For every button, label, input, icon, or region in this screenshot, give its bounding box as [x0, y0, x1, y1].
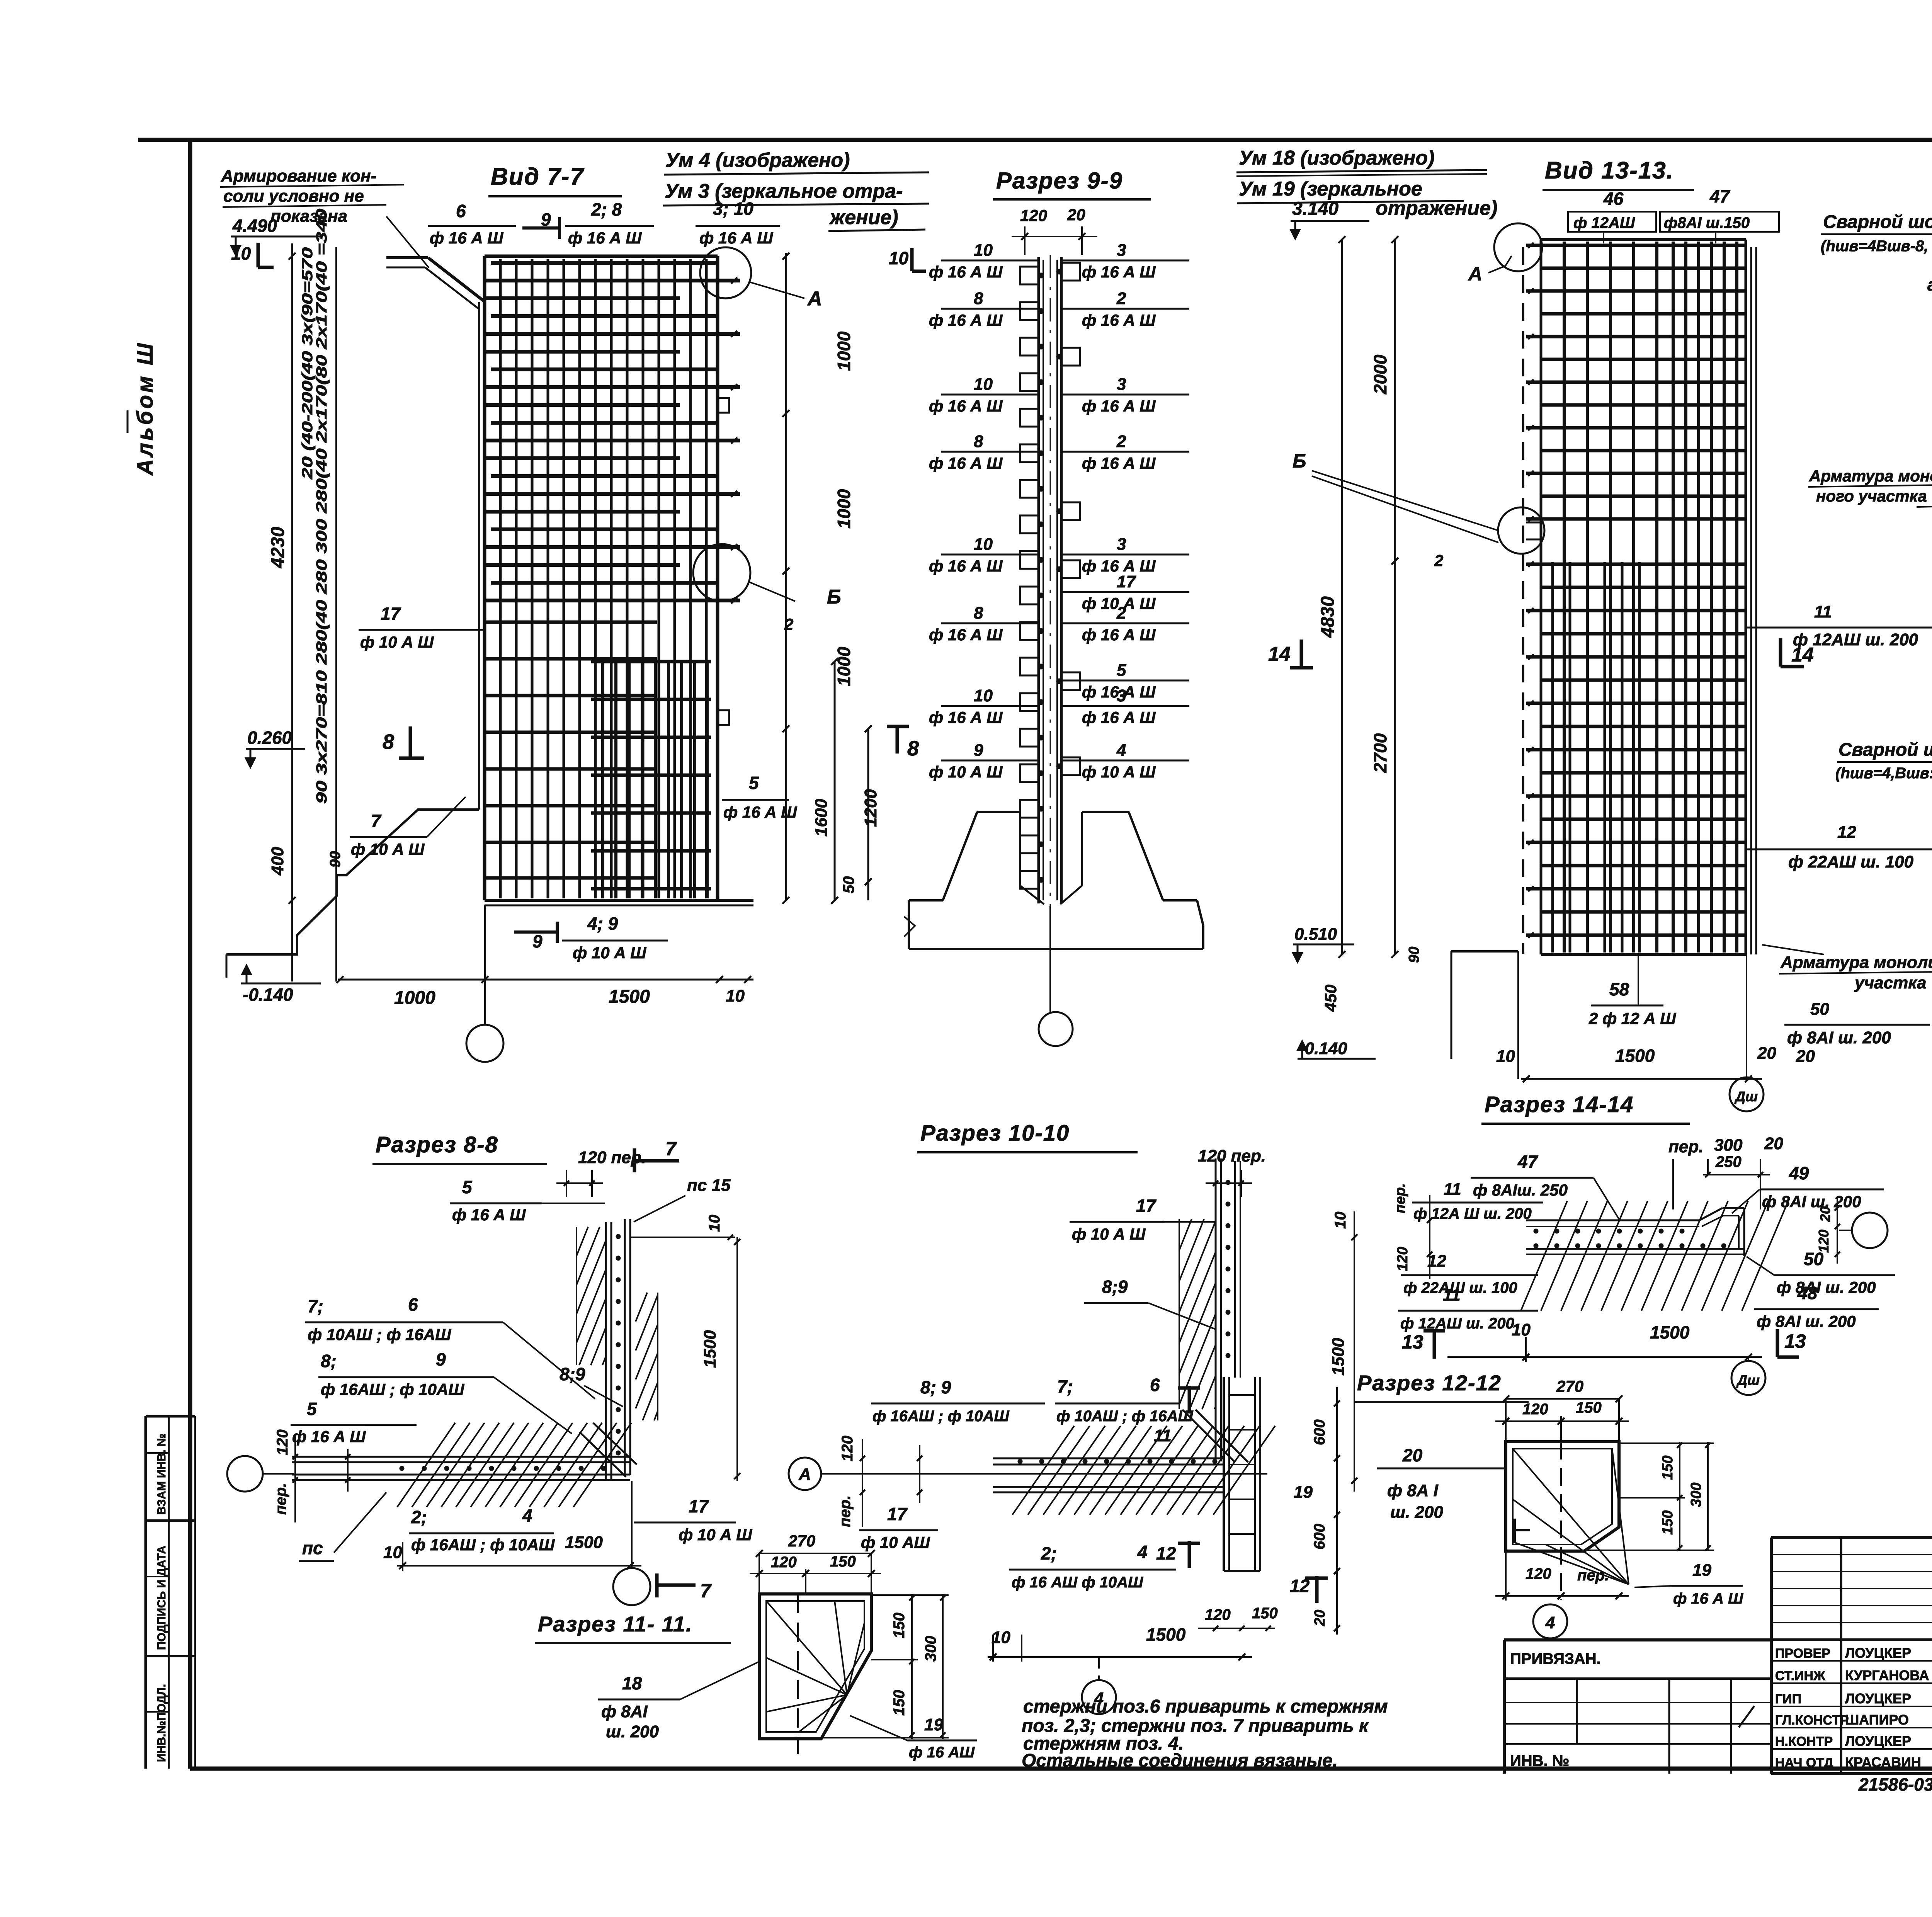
- svg-text:пс 15: пс 15: [687, 1176, 731, 1195]
- svg-text:ф 16 А Ш: ф 16 А Ш: [929, 311, 1003, 329]
- svg-text:2: 2: [1116, 604, 1126, 623]
- sheet frame bottom edge: [190, 1767, 1932, 1771]
- svg-text:19: 19: [1692, 1561, 1711, 1580]
- view 7-7 right edge notch A: [718, 398, 729, 413]
- svg-text:10: 10: [383, 1543, 402, 1562]
- svg-text:(hшв=4Вшв-8, сшв=90): (hшв=4Вшв-8, сшв=90): [1821, 238, 1932, 255]
- axis bubble A 10-10: [789, 1458, 821, 1490]
- svg-text:А: А: [798, 1465, 811, 1484]
- svg-text:1500: 1500: [701, 1330, 719, 1368]
- svg-text:48: 48: [1797, 1283, 1818, 1303]
- svg-text:600: 600: [1311, 1524, 1328, 1550]
- view 7-7 grid horizontals upper: [491, 261, 718, 265]
- svg-text:8: 8: [974, 289, 983, 308]
- svg-text:Ум 3 (зеркальное отра-: Ум 3 (зеркальное отра-: [665, 180, 903, 202]
- svg-text:19: 19: [924, 1715, 943, 1734]
- svg-text:ф 16 А Ш: ф 16 А Ш: [929, 454, 1003, 472]
- view 7-7 bottom mesh verticals: [601, 662, 604, 898]
- svg-text:ф 8АI ш. 200: ф 8АI ш. 200: [1762, 1192, 1861, 1211]
- section 9-9 footing pocket: [1019, 812, 1021, 886]
- svg-text:9: 9: [436, 1349, 446, 1369]
- svg-text:ф 16 А Ш: ф 16 А Ш: [430, 229, 503, 247]
- svg-text:ф 10 А Ш: ф 10 А Ш: [1072, 1225, 1146, 1243]
- svg-text:150: 150: [891, 1690, 908, 1716]
- svg-text:90: 90: [327, 851, 344, 867]
- section 12-12 dashed axis: [1560, 1442, 1562, 1600]
- svg-text:1500: 1500: [609, 987, 650, 1007]
- svg-text:2: 2: [1116, 289, 1126, 308]
- svg-text:Н.КОНТР: Н.КОНТР: [1775, 1734, 1833, 1749]
- section 10-10 wall hatch: [1179, 1218, 1180, 1220]
- section 10-10 wall: [1215, 1158, 1217, 1461]
- svg-text:10: 10: [889, 248, 909, 268]
- svg-text:20: 20: [1764, 1134, 1783, 1153]
- svg-text:ф 10 А Ш: ф 10 А Ш: [573, 944, 646, 962]
- svg-text:ф 10 А Ш: ф 10 А Ш: [1082, 763, 1156, 781]
- right rotated dims 20 120 14-14: [1837, 1198, 1838, 1264]
- svg-text:120: 120: [771, 1554, 797, 1571]
- view 7-7 grid horizontals lower: [485, 621, 657, 624]
- svg-text:стержни поз.6 приварить к стер: стержни поз.6 приварить к стержням: [1023, 1696, 1388, 1717]
- svg-text:8: 8: [974, 432, 983, 451]
- svg-text:ф 16АШ ; ф 10АШ: ф 16АШ ; ф 10АШ: [411, 1536, 555, 1554]
- svg-text:250: 250: [1715, 1153, 1742, 1170]
- svg-text:7: 7: [665, 1138, 677, 1160]
- view 7-7 right dim 1600 1200: [834, 662, 836, 900]
- svg-text:Вид 7-7: Вид 7-7: [491, 163, 584, 190]
- section 10-10 slab hatch: [1012, 1426, 1074, 1515]
- svg-text:120: 120: [1526, 1565, 1551, 1582]
- view 7-7 bottom mesh horizontals: [591, 660, 711, 663]
- view 13-13 grid verticals: [1563, 242, 1566, 953]
- svg-text:1000: 1000: [834, 646, 854, 686]
- view 7-7 footing outline: [226, 810, 479, 954]
- section 9-9 right callouts: [1061, 260, 1189, 262]
- svg-text:пс: пс: [302, 1538, 323, 1558]
- svg-text:ф 16 А Ш: ф 16 А Ш: [1082, 397, 1156, 415]
- svg-text:ф 16 А Ш: ф 16 А Ш: [1082, 454, 1156, 472]
- section 12-12 square outer: [1506, 1442, 1619, 1551]
- svg-text:12: 12: [1156, 1543, 1176, 1563]
- svg-text:ф 10 АШ: ф 10 АШ: [861, 1533, 930, 1551]
- section 8-8 slab hatch: [397, 1423, 455, 1507]
- view 7-7 console outline: [386, 256, 428, 259]
- svg-text:90: 90: [1406, 947, 1422, 963]
- svg-text:8;9: 8;9: [1102, 1277, 1128, 1297]
- svg-text:ф 16 А Ш: ф 16 А Ш: [452, 1206, 526, 1224]
- svg-text:7;: 7;: [308, 1296, 323, 1316]
- svg-text:ф 16 А Ш: ф 16 А Ш: [1673, 1590, 1743, 1607]
- svg-text:17: 17: [887, 1504, 908, 1524]
- view 7-7 grid frame: [483, 256, 486, 900]
- svg-text:-0.140: -0.140: [243, 985, 293, 1005]
- left tick lines 14-14: [1429, 1195, 1430, 1279]
- svg-text:а: а: [1927, 274, 1932, 294]
- Dsh bubble 14-14: [1748, 1357, 1749, 1361]
- section 9-9 axis bubble: [1049, 906, 1051, 1012]
- section mark 7 bottom: [655, 1573, 659, 1597]
- svg-text:ф 8АI ш. 200: ф 8АI ш. 200: [1777, 1278, 1876, 1296]
- svg-text:300: 300: [1714, 1136, 1743, 1155]
- svg-text:Разрез 14-14: Разрез 14-14: [1485, 1092, 1634, 1117]
- svg-text:ЛОУЦКЕР: ЛОУЦКЕР: [1845, 1733, 1911, 1749]
- svg-text:пер.: пер.: [1392, 1183, 1408, 1213]
- svg-text:ф8АI ш.150: ф8АI ш.150: [1664, 214, 1750, 231]
- view 13-13 detail circle top: [1494, 223, 1542, 271]
- svg-text:1500: 1500: [1329, 1338, 1348, 1376]
- svg-text:20: 20: [1312, 1610, 1328, 1626]
- svg-text:270: 270: [788, 1532, 815, 1550]
- privyazan table: [1503, 1640, 1506, 1774]
- svg-text:КУРГАНОВА: КУРГАНОВА: [1845, 1667, 1929, 1683]
- svg-text:46: 46: [1603, 189, 1624, 209]
- view 13-13 grid frame: [1540, 240, 1543, 954]
- section 8-8 wall hatch left band: [576, 1226, 577, 1228]
- svg-text:120: 120: [1395, 1247, 1411, 1271]
- svg-text:2700: 2700: [1370, 733, 1390, 773]
- svg-text:ф 16 А Ш: ф 16 А Ш: [929, 263, 1003, 281]
- section flag T1 10-10: [1188, 1386, 1191, 1414]
- section 10-10 corner diagonal: [1196, 1410, 1248, 1462]
- section 9-9 left hook squares: [1020, 267, 1039, 284]
- svg-text:ф 12АШ: ф 12АШ: [1573, 214, 1635, 231]
- section 14-14 diagonal hatch: [1521, 1201, 1567, 1311]
- svg-text:10: 10: [1332, 1212, 1349, 1229]
- svg-text:10: 10: [1496, 1047, 1515, 1066]
- svg-text:показана: показана: [270, 207, 347, 226]
- svg-text:10: 10: [706, 1215, 723, 1232]
- svg-text:17: 17: [689, 1496, 709, 1516]
- svg-text:ш. 200: ш. 200: [606, 1722, 659, 1741]
- svg-text:7: 7: [700, 1580, 712, 1602]
- svg-text:20 (40-200(40 3х(90=570: 20 (40-200(40 3х(90=570: [299, 247, 316, 480]
- svg-text:5: 5: [462, 1177, 473, 1197]
- section 11-11 dashed axis: [797, 1594, 799, 1754]
- svg-text:150: 150: [1252, 1605, 1278, 1622]
- svg-text:8;: 8;: [321, 1351, 337, 1371]
- svg-text:9: 9: [532, 931, 543, 951]
- svg-text:ВЗАМ ИНВ. №: ВЗАМ ИНВ. №: [155, 1434, 168, 1515]
- right dim chain 600 600 20: [1336, 1387, 1338, 1635]
- svg-text:50: 50: [840, 876, 857, 894]
- rebar label f8AI box: [1660, 212, 1779, 232]
- view 13-13 horizontals lower: [1526, 563, 1746, 566]
- detail circle B on view 7-7: [693, 544, 750, 601]
- svg-text:5: 5: [307, 1399, 317, 1419]
- svg-text:1200: 1200: [861, 789, 880, 827]
- svg-text:0.510: 0.510: [1294, 925, 1337, 944]
- svg-text:10: 10: [974, 375, 993, 394]
- svg-text:8: 8: [383, 730, 394, 754]
- svg-text:ного участка: ного участка: [1816, 487, 1927, 505]
- svg-text:ф 16 А Ш: ф 16 А Ш: [723, 803, 797, 821]
- svg-text:2000: 2000: [1370, 354, 1390, 395]
- svg-text:2;: 2;: [411, 1507, 427, 1527]
- svg-text:20: 20: [1796, 1047, 1815, 1066]
- svg-text:ф 12АШ ш. 200: ф 12АШ ш. 200: [1793, 630, 1918, 649]
- svg-text:соли условно не: соли условно не: [223, 187, 364, 206]
- section 14-14 beam: [1526, 1220, 1699, 1221]
- svg-text:120: 120: [1205, 1606, 1231, 1623]
- svg-text:270: 270: [1556, 1377, 1583, 1395]
- svg-text:4: 4: [1116, 741, 1126, 760]
- svg-text:3: 3: [1117, 241, 1126, 260]
- svg-text:8: 8: [974, 604, 983, 623]
- svg-text:участка: участка: [1854, 973, 1927, 992]
- svg-text:отражение): отражение): [1376, 197, 1497, 219]
- view 13-13 dim 2000 2700: [1394, 240, 1396, 954]
- svg-text:ф 8АIш. 250: ф 8АIш. 250: [1473, 1181, 1568, 1199]
- svg-text:14: 14: [1268, 643, 1291, 665]
- svg-text:ф 10АШ ; ф 16АШ: ф 10АШ ; ф 16АШ: [1056, 1408, 1193, 1425]
- svg-text:пер.: пер.: [837, 1495, 854, 1527]
- svg-text:7: 7: [371, 811, 382, 831]
- svg-text:120: 120: [1522, 1401, 1548, 1418]
- svg-text:ш. 200: ш. 200: [1390, 1503, 1444, 1522]
- svg-text:ф 8А I: ф 8А I: [1387, 1481, 1439, 1500]
- svg-text:(hшв=4,Вшв:8,сшв-90): (hшв=4,Вшв:8,сшв-90): [1835, 765, 1932, 782]
- svg-text:Разрез 10-10: Разрез 10-10: [920, 1121, 1070, 1146]
- svg-text:120 пер.: 120 пер.: [1198, 1146, 1266, 1165]
- section 11-11 pentagon outer: [759, 1594, 871, 1739]
- svg-text:10: 10: [726, 987, 745, 1005]
- section 14-14 beam hook end: [1699, 1208, 1723, 1220]
- detail circle A on view 7-7: [700, 247, 751, 298]
- rebar label f12A box: [1568, 212, 1656, 232]
- view 13-13 dim 4830: [1341, 240, 1343, 954]
- section 8-8 wall hatch right band: [635, 1292, 636, 1293]
- view 13-13 notch detail circle: [1498, 507, 1544, 554]
- svg-text:Разрез 9-9: Разрез 9-9: [996, 168, 1123, 194]
- svg-text:ИНВ. №: ИНВ. №: [1510, 1752, 1569, 1769]
- view 7-7 right edge notch B: [718, 710, 729, 725]
- svg-text:Дш: Дш: [1734, 1089, 1758, 1104]
- svg-text:12: 12: [1427, 1252, 1446, 1271]
- svg-text:4830: 4830: [1318, 596, 1338, 638]
- svg-text:4: 4: [522, 1505, 532, 1526]
- svg-text:120: 120: [274, 1429, 291, 1455]
- svg-text:11: 11: [1444, 1180, 1461, 1199]
- svg-text:8;9: 8;9: [560, 1364, 585, 1384]
- svg-text:Б: Б: [1293, 450, 1306, 472]
- svg-text:Альбом Ш: Альбом Ш: [133, 341, 158, 476]
- svg-text:10: 10: [1512, 1320, 1531, 1339]
- svg-text:13: 13: [1402, 1331, 1423, 1353]
- svg-text:18: 18: [622, 1673, 642, 1693]
- svg-text:3.140: 3.140: [1292, 199, 1338, 219]
- svg-text:ф 16 А Ш: ф 16 А Ш: [1082, 626, 1156, 644]
- svg-text:Разрез 11- 11.: Разрез 11- 11.: [538, 1612, 693, 1636]
- svg-text:Арматура монолитного: Арматура монолитного: [1780, 953, 1932, 972]
- svg-text:ф 16 А Ш: ф 16 А Ш: [929, 626, 1003, 644]
- svg-text:1500: 1500: [1650, 1322, 1690, 1342]
- svg-text:Сварной шов: Сварной шов: [1838, 740, 1932, 760]
- svg-text:ф 16 А Ш: ф 16 А Ш: [929, 708, 1003, 726]
- svg-text:ф 16 А Ш: ф 16 А Ш: [1082, 708, 1156, 726]
- svg-text:6: 6: [408, 1294, 418, 1315]
- svg-text:8; 9: 8; 9: [920, 1377, 951, 1397]
- svg-text:10: 10: [231, 243, 251, 264]
- svg-text:А: А: [1468, 263, 1482, 285]
- svg-text:4230: 4230: [268, 527, 288, 568]
- axis bubble bottom 8-8: [613, 1568, 650, 1605]
- axis bubble 8-8: [227, 1456, 263, 1492]
- view 13-13 outer right double line: [1750, 247, 1752, 954]
- axis bubble 4 12-12: [1533, 1604, 1567, 1638]
- right dim chain 10 1500 10-10: [1354, 1211, 1355, 1492]
- svg-text:90 3х270=810 280(40 280 300 28: 90 3х270=810 280(40 280 300 280(40 2х170…: [314, 209, 330, 804]
- svg-text:20: 20: [1817, 1206, 1833, 1222]
- svg-text:Сварной шов: Сварной шов: [1823, 212, 1932, 232]
- section 9-9 footing outline: [977, 811, 1020, 813]
- svg-text:4: 4: [1545, 1613, 1555, 1632]
- axis circle right 14-14: [1852, 1213, 1888, 1248]
- svg-text:Арматура монолит-: Арматура монолит-: [1809, 467, 1932, 485]
- svg-text:20: 20: [1067, 206, 1085, 224]
- view 7-7 bottom dim line: [338, 979, 753, 981]
- view 7-7 axis line and bubble: [484, 905, 486, 1025]
- svg-text:4: 4: [1137, 1542, 1148, 1562]
- svg-text:1000: 1000: [834, 489, 854, 529]
- svg-text:4; 9: 4; 9: [587, 913, 618, 934]
- svg-text:ф 16АШ ; ф 10АШ: ф 16АШ ; ф 10АШ: [872, 1408, 1009, 1425]
- svg-text:2; 8: 2; 8: [591, 199, 622, 219]
- svg-text:17: 17: [1117, 572, 1136, 591]
- view 7-7 grid verticals: [499, 259, 502, 898]
- svg-text:150: 150: [1660, 1456, 1676, 1480]
- svg-text:Ум 4 (изображено): Ум 4 (изображено): [665, 149, 850, 172]
- svg-text:120: 120: [1020, 206, 1047, 225]
- svg-text:1500: 1500: [565, 1533, 603, 1552]
- svg-text:6: 6: [1150, 1375, 1160, 1395]
- svg-text:10: 10: [992, 1628, 1010, 1647]
- svg-text:1000: 1000: [394, 988, 435, 1008]
- svg-text:ГЛ.КОНСТР: ГЛ.КОНСТР: [1775, 1713, 1849, 1728]
- section 11-11 right dims: [911, 1594, 913, 1739]
- svg-text:ф 10 А Ш: ф 10 А Ш: [351, 840, 425, 858]
- svg-text:2 ф 12 А Ш: 2 ф 12 А Ш: [1588, 1009, 1676, 1027]
- svg-text:КРАСАВИН: КРАСАВИН: [1845, 1754, 1921, 1770]
- svg-text:ф 16 АШ ф 10АШ: ф 16 АШ ф 10АШ: [1012, 1574, 1143, 1591]
- svg-text:58: 58: [1609, 979, 1629, 999]
- view 13-13 bottom step: [1451, 950, 1518, 953]
- svg-text:ф 16АШ ; ф 10АШ: ф 16АШ ; ф 10АШ: [321, 1380, 464, 1398]
- svg-text:2: 2: [1116, 432, 1126, 451]
- svg-text:47: 47: [1709, 186, 1731, 206]
- svg-text:3: 3: [1117, 375, 1126, 394]
- svg-text:ф 16 А Ш: ф 16 А Ш: [929, 557, 1003, 575]
- section 8-8 wall: [605, 1222, 607, 1481]
- svg-text:3; 10: 3; 10: [713, 199, 753, 219]
- svg-text:17: 17: [381, 604, 401, 624]
- view 7-7 right dim line 1000s: [785, 253, 787, 900]
- section 9-9 right hook squares: [1061, 263, 1080, 281]
- svg-text:ф 16 А Ш: ф 16 А Ш: [1082, 263, 1156, 281]
- svg-text:120: 120: [1816, 1230, 1832, 1253]
- svg-text:Б: Б: [827, 586, 841, 608]
- view 13-13 middle verticals lower: [1551, 562, 1554, 953]
- svg-text:11: 11: [1814, 602, 1832, 621]
- svg-text:4.490: 4.490: [232, 216, 277, 236]
- svg-text:1500: 1500: [1615, 1046, 1655, 1066]
- svg-text:400: 400: [268, 847, 287, 876]
- svg-text:11: 11: [1443, 1286, 1461, 1305]
- svg-text:пер.: пер.: [1668, 1137, 1703, 1156]
- column section 12-12 cut: [1223, 1377, 1225, 1571]
- svg-text:ф 16 А Ш: ф 16 А Ш: [568, 229, 642, 247]
- svg-text:12: 12: [1837, 823, 1856, 842]
- svg-text:3: 3: [1117, 686, 1126, 705]
- svg-text:ЛОУЦКЕР: ЛОУЦКЕР: [1845, 1645, 1911, 1661]
- svg-text:9: 9: [974, 741, 983, 760]
- svg-text:пер.: пер.: [272, 1483, 289, 1515]
- axis line and Dsh bubble view 13-13: [1746, 954, 1747, 1077]
- view 7-7 note leader: [386, 216, 429, 268]
- section 9-9 left callouts: [941, 260, 1039, 262]
- svg-text:300: 300: [1688, 1483, 1704, 1507]
- svg-text:20: 20: [1402, 1445, 1423, 1465]
- svg-text:пер.: пер.: [1577, 1567, 1609, 1584]
- svg-text:2: 2: [1434, 551, 1443, 570]
- svg-text:Армирование кон-: Армирование кон-: [221, 167, 376, 185]
- svg-text:600: 600: [1311, 1419, 1328, 1445]
- svg-text:10: 10: [974, 241, 993, 260]
- svg-text:150: 150: [891, 1613, 908, 1638]
- svg-text:ф 8АI ш. 200: ф 8АI ш. 200: [1787, 1028, 1891, 1047]
- svg-text:СТ.ИНЖ: СТ.ИНЖ: [1775, 1669, 1825, 1683]
- svg-text:ф 10 А Ш: ф 10 А Ш: [360, 633, 434, 651]
- section 11-11 pentagon inner: [766, 1601, 864, 1732]
- svg-text:НАЧ ОТД: НАЧ ОТД: [1775, 1755, 1833, 1770]
- svg-text:ЛОУЦКЕР: ЛОУЦКЕР: [1845, 1691, 1911, 1706]
- svg-text:13: 13: [1784, 1330, 1806, 1352]
- section 12-12 square inner: [1513, 1449, 1612, 1544]
- svg-text:ШАПИРО: ШАПИРО: [1845, 1712, 1909, 1728]
- svg-text:11: 11: [1154, 1426, 1172, 1445]
- svg-text:1600: 1600: [812, 799, 831, 837]
- section 9-9 column shaft: [1037, 257, 1040, 903]
- section 12-12 right dims: [1679, 1442, 1680, 1551]
- svg-text:20: 20: [1757, 1044, 1776, 1063]
- svg-text:ф 8АI ш. 200: ф 8АI ш. 200: [1757, 1312, 1856, 1330]
- svg-text:ф 12АШ ш. 200: ф 12АШ ш. 200: [1400, 1315, 1514, 1332]
- view 13-13 bottom dim: [1521, 1078, 1762, 1080]
- svg-text:ф 16 А Ш: ф 16 А Ш: [1082, 311, 1156, 329]
- section 11-11 rebar fan: [766, 1601, 847, 1695]
- svg-text:21586-03 33: 21586-03 33: [1858, 1774, 1932, 1795]
- svg-text:ПОДПИСЬ И ДАТА: ПОДПИСЬ И ДАТА: [155, 1546, 168, 1650]
- svg-text:50: 50: [1810, 1000, 1829, 1019]
- svg-text:10: 10: [974, 686, 993, 705]
- view 13-13 horizontals upper: [1526, 244, 1746, 247]
- dim 1500 8-8: [736, 1237, 738, 1481]
- section 12-12 rebar fan: [1513, 1449, 1629, 1584]
- svg-text:Разрез 8-8: Разрез 8-8: [376, 1132, 498, 1157]
- svg-text:ф 16 АШ: ф 16 АШ: [909, 1744, 975, 1761]
- svg-text:5: 5: [749, 773, 759, 793]
- svg-text:ф 16 А Ш: ф 16 А Ш: [292, 1427, 366, 1446]
- section 8-8 corner diagonals: [580, 1432, 626, 1477]
- svg-text:120: 120: [839, 1436, 856, 1461]
- svg-text:Дш: Дш: [1736, 1372, 1760, 1388]
- view 7-7 dim extension line: [335, 247, 337, 981]
- svg-text:ф 10АШ ; ф 16АШ: ф 10АШ ; ф 16АШ: [308, 1325, 451, 1344]
- axis bubble 4 under 10-10: [1098, 1657, 1100, 1680]
- dim 10 top right 8-8: [630, 1237, 735, 1238]
- svg-text:0.260: 0.260: [247, 728, 292, 748]
- svg-text:ф 10 А Ш: ф 10 А Ш: [679, 1526, 752, 1544]
- svg-text:300: 300: [922, 1636, 939, 1662]
